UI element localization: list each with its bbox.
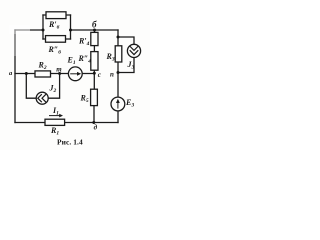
junction dot parallel-left [42, 29, 45, 32]
resistor R1 [45, 119, 65, 125]
junction dot R2/J2 left [25, 72, 28, 75]
wire R5 to node d [93, 106, 95, 123]
resistor R'4 [91, 32, 98, 45]
wire J3 bottom branch to node n [118, 58, 134, 73]
wire right column top segment [117, 30, 119, 46]
junction dot node d [92, 121, 95, 124]
double chevron inside J2 (points left) [38, 94, 46, 102]
source E1 circle [68, 67, 82, 81]
wire bottom (d row) [15, 122, 118, 124]
wire R''6 branch [43, 38, 71, 40]
junction dot J3 tap [117, 36, 120, 39]
scan fade on top-left corner [9, 25, 30, 34]
svg-text:Рис. 1.4: Рис. 1.4 [57, 138, 83, 147]
wire left rail a-column [14, 30, 16, 123]
resistor R3 [115, 46, 122, 62]
wire top main to node b and right corner [71, 29, 119, 31]
double chevron inside J3 (points down) [130, 46, 139, 55]
current source J2 circle [36, 92, 48, 104]
junction dot node b [93, 29, 96, 32]
svg-text:n: n [110, 71, 114, 79]
wire parallel-group right rail [70, 15, 72, 39]
current source J3 circle [127, 44, 140, 57]
junction dot node n [117, 71, 120, 74]
wire E3 bottom to d row [117, 111, 119, 123]
resistor R5 [91, 89, 98, 105]
wire R''4 to node c to R5 [93, 70, 95, 89]
wire between R'4 and R''4 [93, 46, 95, 52]
svg-text:б: б [92, 20, 97, 30]
junction dot node m [58, 72, 61, 75]
current arrow I1 above R1 [49, 114, 63, 118]
resistor R''6 [46, 36, 66, 43]
wire parallel-group left rail [42, 15, 44, 39]
svg-text:c: c [98, 71, 101, 79]
arrow inside E1 (points right) [70, 72, 81, 76]
junction dot parallel-right [69, 29, 72, 32]
wire J2 loop right side to node m [48, 74, 59, 99]
arrow inside E3 (points up) [116, 99, 120, 109]
wire J2 loop left side [26, 74, 36, 99]
svg-text:m: m [56, 66, 62, 74]
wire middle row a-m-c [15, 73, 94, 75]
junction dot node c [93, 72, 96, 75]
source E3 circle [111, 97, 125, 111]
wire node b branch down [94, 30, 96, 32]
wire R'6 branch [43, 14, 71, 16]
svg-text:д: д [94, 124, 98, 132]
wire J3 top branch [118, 37, 134, 44]
resistor R''4 [91, 52, 98, 71]
wire top-left to parallel group [15, 29, 43, 31]
wire right column R3 to n to E3 [117, 62, 119, 97]
resistor R2 [35, 71, 51, 77]
resistor R'6 [46, 12, 66, 19]
